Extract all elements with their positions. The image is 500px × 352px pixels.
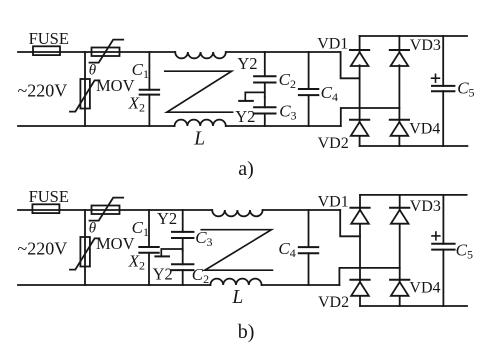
thermistor body (a) — [92, 48, 120, 57]
label Y2 upper (b) — [157, 209, 177, 228]
circuit b) bottom AC line (left segment) — [18, 284, 210, 286]
DC+ output wire (a) — [360, 35, 467, 37]
electrolytic capacitor C5 (a) — [432, 36, 454, 146]
label C1 (a) — [132, 60, 149, 81]
common-mode choke core Z (a) — [165, 71, 233, 112]
plus polarity mark (b) — [432, 232, 440, 240]
earth hook (a) — [239, 92, 265, 101]
thermistor bent line (a) — [90, 40, 124, 63]
varistor MOV bent line (b) — [70, 238, 99, 269]
Y-capacitors branch C3/C2 (b) — [172, 210, 193, 285]
MOV branch wire (b) — [84, 210, 86, 285]
label C2 (b) — [192, 265, 209, 286]
label VD4 (b) — [409, 279, 440, 296]
diode VD1 (b) — [350, 208, 369, 224]
diode VD2 (a) — [350, 120, 369, 136]
label C1 (b) — [132, 218, 149, 239]
DC+ output wire (b) — [360, 194, 467, 196]
svg-text:~220V: ~220V — [18, 238, 68, 258]
bridge left rail (a) — [359, 36, 361, 146]
choke top winding (a) — [175, 52, 226, 58]
label VD3 (b) — [410, 198, 441, 215]
label Y2 lower (b) — [153, 264, 173, 283]
label Y2 lower (a) — [235, 107, 255, 126]
varistor MOV body (a) — [80, 79, 90, 109]
earth hook (b) — [155, 249, 182, 256]
circuit b) AC line-2 elbow into bridge — [339, 268, 399, 285]
svg-text:VD2: VD2 — [318, 135, 349, 152]
svg-text:VD1: VD1 — [318, 194, 349, 211]
DC- output wire (a) — [360, 145, 468, 147]
svg-text:L: L — [231, 287, 243, 308]
label VD1 (a) — [317, 35, 348, 52]
choke bottom winding (b) — [210, 279, 261, 285]
MOV branch wire (a) — [84, 52, 86, 126]
circuit b) top AC line (right segment) — [263, 209, 341, 211]
label C2 (a) — [279, 70, 296, 91]
svg-text:MOV: MOV — [96, 76, 135, 95]
choke top winding (b) — [212, 210, 262, 216]
svg-text:VD4: VD4 — [409, 279, 440, 296]
common-mode choke core Z (b) — [201, 230, 272, 271]
svg-text:FUSE: FUSE — [29, 29, 69, 48]
circuit b) AC line-1 elbow into bridge — [340, 210, 360, 236]
svg-text:VD3: VD3 — [410, 37, 441, 54]
circuit a) AC line-1 elbow into bridge — [341, 52, 360, 78]
plus polarity mark (a) — [432, 74, 440, 82]
label C4 (b) — [278, 239, 295, 260]
label C3 (a) — [279, 101, 296, 122]
svg-text:Y2: Y2 — [157, 209, 177, 228]
label VD4 (a) — [409, 120, 440, 137]
bridge right rail (b) — [399, 195, 401, 306]
bridge right rail (a) — [398, 36, 400, 146]
thermistor bent line (b) — [90, 198, 124, 221]
diode VD3 (b) — [390, 208, 409, 224]
svg-text:Y2: Y2 — [237, 54, 257, 73]
diode VD3 (a) — [390, 50, 409, 66]
label C3 (b) — [195, 228, 212, 249]
caption b) — [238, 321, 255, 343]
label L (a) — [193, 128, 205, 149]
svg-text:a): a) — [238, 158, 254, 180]
bridge left rail (b) — [359, 195, 361, 306]
label Y2 upper (a) — [237, 54, 257, 73]
label VD2 (b) — [318, 294, 349, 311]
caption a) — [238, 158, 254, 180]
thermistor body (b) — [92, 206, 120, 215]
capacitor C1/X2 branch (a) — [140, 52, 159, 126]
capacitor C4 branch (a) — [299, 52, 318, 126]
svg-text:VD1: VD1 — [317, 35, 348, 52]
diode VD4 (b) — [390, 280, 409, 296]
label VD3 (a) — [410, 37, 441, 54]
svg-text:VD2: VD2 — [318, 294, 349, 311]
label MOV (a) — [96, 76, 135, 95]
label X2 (b) — [128, 252, 145, 273]
circuit b) top AC line (left segment) — [18, 209, 212, 211]
label theta (b) — [89, 220, 97, 236]
label VD2 (a) — [318, 135, 349, 152]
circuit a) top AC line (left segment) — [18, 51, 175, 53]
label VD1 (b) — [318, 194, 349, 211]
label C5 (b) — [456, 240, 473, 261]
diode VD2 (b) — [350, 280, 369, 296]
capacitor C1/X2 branch (b) — [139, 210, 158, 285]
svg-text:Y2: Y2 — [153, 264, 173, 283]
svg-text:MOV: MOV — [96, 234, 135, 253]
svg-text:VD4: VD4 — [409, 120, 440, 137]
svg-text:Y2: Y2 — [235, 107, 255, 126]
DC- output wire (b) — [360, 305, 467, 307]
diode VD4 (a) — [390, 120, 409, 136]
fuse FUSE (b) — [32, 204, 59, 213]
choke bottom winding (a) — [175, 120, 226, 126]
svg-text:VD3: VD3 — [410, 198, 441, 215]
Y-capacitors branch C2/C3 (a) — [254, 52, 275, 126]
label MOV (b) — [96, 234, 135, 253]
label FUSE (a) — [29, 29, 69, 48]
electrolytic capacitor C5 (b) — [432, 195, 454, 306]
circuit a) bottom AC line (right segment) — [226, 125, 341, 127]
label L (b) — [231, 287, 243, 308]
fuse FUSE (a) — [33, 46, 60, 55]
svg-text:FUSE: FUSE — [29, 187, 69, 206]
svg-text:~220V: ~220V — [18, 80, 68, 100]
diode VD1 (a) — [350, 50, 369, 66]
label X2 (a) — [128, 94, 145, 115]
label theta (a) — [89, 62, 97, 78]
label ~220V (a) — [18, 80, 68, 100]
label C5 (a) — [457, 79, 474, 100]
svg-text:b): b) — [238, 321, 255, 343]
circuit b) bottom AC line (right segment) — [262, 284, 340, 286]
circuit a) top AC line (right segment) — [226, 51, 341, 53]
label C4 (a) — [321, 83, 338, 104]
label FUSE (b) — [29, 187, 69, 206]
varistor MOV body (b) — [80, 237, 90, 267]
varistor MOV bent line (a) — [70, 80, 99, 111]
svg-text:L: L — [193, 128, 205, 149]
capacitor C4 branch (b) — [299, 210, 318, 285]
circuit a) bottom AC line (left segment) — [18, 125, 175, 127]
circuit a) AC line-2 elbow into bridge — [341, 108, 400, 126]
label ~220V (b) — [18, 238, 68, 258]
